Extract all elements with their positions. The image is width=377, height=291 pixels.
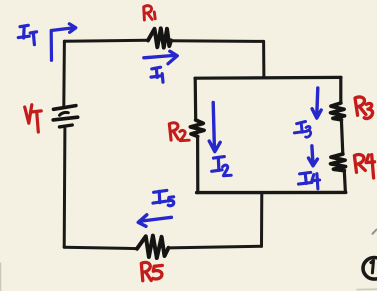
wire bottom right segment [169,246,262,248]
edge smudge [0,263,2,291]
bottom right faint rule [357,288,377,290]
box top edge [195,76,341,80]
label R2 [169,123,189,141]
label I4 [299,172,320,188]
wire connector top to box [262,41,265,77]
resistor R1 [148,28,171,47]
wire top right segment [171,39,264,43]
box left edge lower [196,136,199,192]
battery VT source [53,106,77,127]
label I2 [212,157,232,176]
arrow I1 [144,51,178,64]
label I3 [294,122,310,138]
box left edge upper [194,78,198,120]
box bottom edge [197,191,346,195]
arrow IT corner [51,24,76,61]
wire bottom left segment [64,247,137,248]
label IT [18,25,36,44]
box right edge upper [339,77,342,103]
label I5 [153,190,174,205]
arrow I4 [309,146,318,166]
box right edge lower [344,171,345,193]
box right edge middle [341,120,342,154]
arrow I5 [138,215,171,227]
label R4 [354,155,374,178]
wire left vertical upper [62,41,66,106]
resistor R2 [190,120,204,136]
arrow I2 [209,103,220,152]
resistor R4 [331,154,346,171]
wire connector box to bottom [260,193,263,246]
wire top left segment [64,40,148,41]
resistor R5 [137,236,169,258]
arrow I3 [312,88,321,118]
label R3 [355,97,373,119]
label R5 [141,262,162,280]
label I1 [151,67,163,82]
label R1 [144,6,156,20]
wire left vertical lower [63,129,67,247]
page number circled 1 [363,258,377,280]
resistor R3 [331,103,345,120]
small gray tick [373,230,377,234]
label VT [25,105,42,132]
